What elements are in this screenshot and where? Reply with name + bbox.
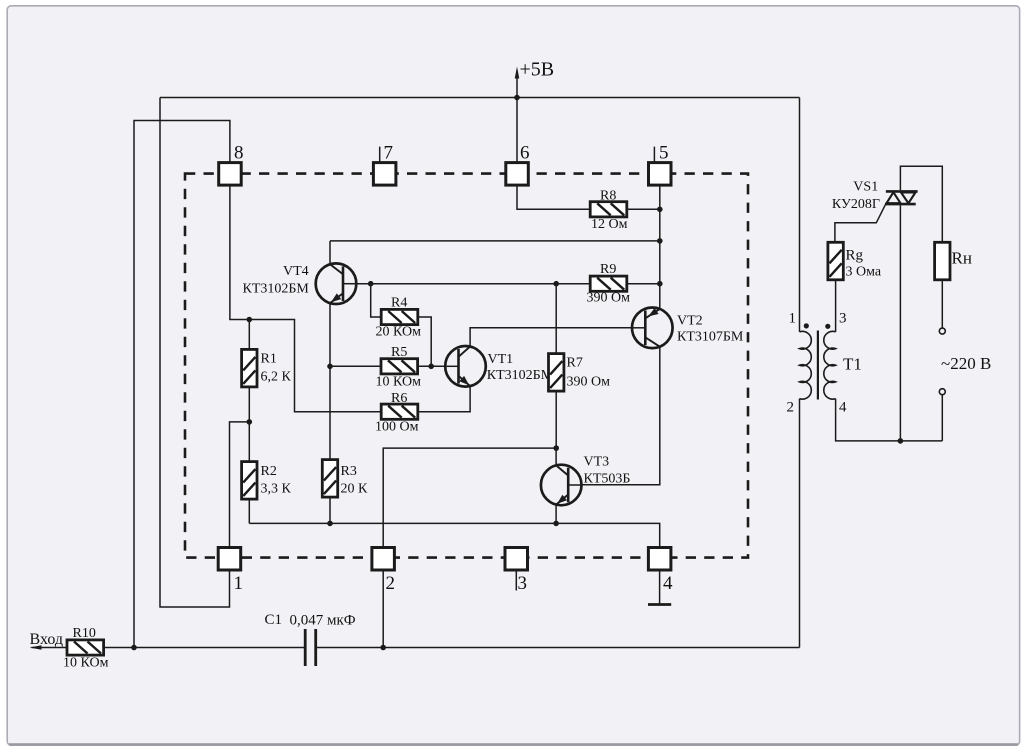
svg-text:7: 7 [384,143,394,164]
node R7 branch junction [553,281,559,287]
pin 7 [373,163,396,186]
resistor R5 [381,359,418,374]
svg-text:КУ208Г: КУ208Г [832,197,880,212]
svg-text:Вход: Вход [30,631,64,648]
svg-text:КТ3107БМ: КТ3107БМ [677,330,744,345]
transformer T1 secondary winding [824,331,836,399]
capacitor C1 [304,629,307,666]
wire T1 primary lead bottom [799,399,801,648]
transistor VT2 [632,308,673,349]
svg-text:3 Ома: 3 Ома [846,265,882,280]
node VT3-collector junction [553,445,559,451]
svg-text:100 Ом: 100 Ом [375,420,419,435]
svg-text:3: 3 [518,573,528,594]
wire pin6 riser [516,98,518,163]
svg-text:0,047 мкФ: 0,047 мкФ [290,613,356,629]
svg-text:VS1: VS1 [853,180,878,195]
wire mains lower lead [941,394,943,441]
svg-text:VT2: VT2 [677,314,703,329]
svg-text:С1: С1 [265,612,283,628]
wire pin3 tick [515,570,517,591]
node pin2-input junction [380,645,386,651]
wire VS1 anode lead [900,166,942,242]
wire pin2 riser [383,448,556,548]
svg-text:R10: R10 [73,626,96,641]
svg-text:R5: R5 [391,345,407,360]
svg-text:КТ503Б: КТ503Б [584,472,631,487]
wire pin7 tick [379,147,381,163]
svg-text:2: 2 [386,573,396,594]
svg-text:2: 2 [787,400,795,416]
wire pin1 branch [230,422,250,548]
wire R4 left lead [371,284,382,317]
svg-text:~220 В: ~220 В [941,354,991,373]
triac VS1 [886,190,918,193]
node R8 junction [657,207,663,213]
svg-text:R6: R6 [391,391,407,406]
pin 6 [506,163,529,186]
svg-text:Rg: Rg [846,248,864,264]
node R3-rail junction [327,521,333,527]
pin 5 [649,163,672,186]
terminal ~220V upper [939,328,945,334]
svg-text:1: 1 [234,573,244,594]
wire VT1 collector [470,328,632,347]
node R4 branch junction [368,281,374,287]
svg-text:20 К: 20 К [341,482,369,497]
resistor R6 [381,404,418,419]
svg-text:VT1: VT1 [488,352,514,367]
wire T1 secondary top lead [835,280,837,332]
resistor R10 [67,640,104,655]
wire VT3 emitter lead [555,505,557,524]
svg-text:6,2 К: 6,2 К [261,370,292,385]
wire pin6 drop to R8 [517,185,590,209]
wire VT4 emitter riser [329,303,331,366]
node VT1-base junction [428,364,434,370]
wire T1 primary lead top [799,98,801,332]
pin 2 [372,548,395,571]
wire T1 secondary bottom lead [836,399,943,441]
pin 4 [648,548,671,571]
node input-left junction [131,645,137,651]
svg-text:3: 3 [839,311,847,327]
resistor R9 [590,276,627,291]
wire +5V rail [160,97,800,99]
svg-text:R1: R1 [261,352,277,367]
node VT4-collector junction [657,238,663,244]
wire R1 top lead [248,320,250,350]
wire input arrow [32,647,67,649]
wire pin8 inner jog [230,185,381,412]
node VS1-T1 junction [898,438,904,444]
wire R3 bottom lead [329,497,331,523]
svg-text:4: 4 [839,400,847,416]
svg-text:R2: R2 [261,464,277,479]
wire R5 left lead [330,365,381,367]
resistor Rg [828,242,843,279]
wire R7 top lead [555,284,557,354]
wire R2 bottom lead [248,499,250,523]
wire pin2 bottom lead [382,570,384,648]
wire VT4 base rail [350,283,590,285]
wire emitter rail [249,523,659,547]
svg-text:12 Ом: 12 Ом [591,217,628,232]
terminal ~220V lower [939,389,945,395]
wire Rн bottom lead [941,280,943,329]
node R1-R2 junction [247,419,253,425]
wire VT4 collector riser [329,241,331,264]
svg-text:VT3: VT3 [584,455,610,470]
svg-text:8: 8 [234,143,244,164]
svg-text:Т1: Т1 [843,355,862,374]
svg-text:4: 4 [663,573,673,594]
transistor VT4 [316,263,357,304]
wire R1-R2 link [248,387,250,462]
wire R5 right lead [418,365,446,367]
node +5V junction [514,95,520,101]
IC boundary dashed box [185,174,748,558]
svg-text:390 Ом: 390 Ом [587,291,631,306]
wire pin8 riser [134,121,230,648]
svg-text:390 Ом: 390 Ом [567,375,611,390]
ground [648,603,671,606]
wire VT4 collector rail [330,240,660,242]
svg-text:6: 6 [520,143,530,164]
wire R3 top lead [329,366,331,459]
resistor R3 [322,460,337,498]
transformer T1 core [817,331,819,400]
resistor R2 [242,462,257,500]
transistor VT3 [541,465,582,506]
transformer T1 primary winding [800,331,812,399]
resistor R8 [590,202,627,217]
wire pin5 tick [653,147,655,163]
resistor Rн [935,242,950,279]
node T1 secondary polarity dot [825,324,830,329]
svg-text:R3: R3 [341,464,357,479]
svg-text:VT4: VT4 [283,264,309,279]
svg-text:КТ3102БМ: КТ3102БМ [243,282,310,297]
power +5V arrow [516,77,518,98]
wire R6 right lead [418,386,470,411]
wire R8 right lead [627,208,660,210]
svg-text:10 КОм: 10 КОм [376,375,422,390]
svg-text:R7: R7 [567,356,583,371]
wire input rail mid [104,647,304,649]
node R1-top junction [247,317,253,323]
wire input rail right [317,647,800,649]
wire pin5 riser [659,185,661,309]
svg-text:10 КОм: 10 КОм [63,656,109,671]
svg-text:R4: R4 [391,296,407,311]
svg-text:1: 1 [789,311,797,327]
pin 1 [218,548,241,571]
resistor R4 [381,309,418,324]
wire R9 right lead [627,283,660,285]
svg-text:R9: R9 [600,262,616,277]
resistor R1 [242,349,257,387]
node R9 junction [657,281,663,287]
svg-text:R8: R8 [600,189,616,204]
svg-text:5: 5 [659,143,669,164]
wire VS1 gate [835,205,885,243]
resistor R7 [549,354,564,392]
wire left supply drop [160,98,230,608]
node T1 primary polarity dot [804,323,809,328]
svg-text:+5В: +5В [520,59,555,81]
pin 8 [219,163,242,186]
svg-text:20 КОм: 20 КОм [376,325,422,340]
wire VT2 collector [582,346,660,484]
node VT3-emitter junction [553,521,559,527]
transistor VT1 [445,346,486,387]
wire VS1 cathode lead [899,205,901,441]
svg-text:КТ3102БМ: КТ3102БМ [487,368,554,383]
wire R4 right lead [418,317,431,366]
svg-text:3,3 К: 3,3 К [261,482,292,497]
pin 3 [505,548,528,571]
svg-text:Rн: Rн [952,249,972,268]
node VT4-R5 junction [327,364,333,370]
wire pin4 ground lead [659,570,661,605]
wire R7 bottom lead [555,391,557,448]
wire VT3 collector lead [555,448,557,465]
